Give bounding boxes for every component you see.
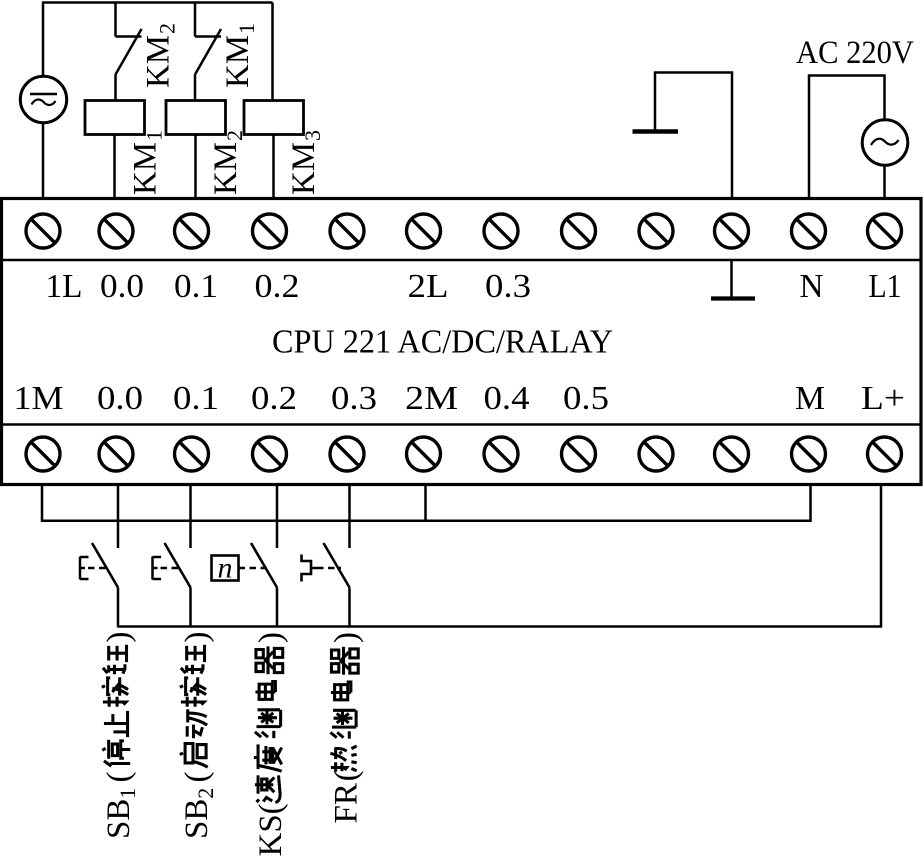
wire (655, 73, 732, 200)
svg-text:0.3: 0.3 (331, 380, 377, 417)
wire (272, 135, 275, 200)
svg-text:0.0: 0.0 (97, 380, 143, 417)
pushbutton SB1 (80, 485, 118, 628)
svg-text:L1: L1 (869, 268, 902, 305)
terminal 0.3 (top row) (484, 214, 518, 248)
thermal relay contact FR (302, 485, 350, 628)
label KM2 (141, 23, 180, 88)
svg-text:1L: 1L (46, 268, 83, 305)
label SB2 start button (179, 632, 218, 840)
pushbutton SB2 (153, 485, 191, 628)
label KM2 (208, 130, 247, 195)
svg-text:FR: FR (329, 783, 365, 823)
svg-text:(: ( (253, 803, 289, 814)
svg-text:): ) (101, 632, 137, 643)
terminal 0.0 (bottom row) (99, 437, 133, 471)
terminal 0.3 (bottom row) (330, 437, 364, 471)
svg-text:KM: KM (141, 35, 177, 88)
svg-text:0.5: 0.5 (563, 380, 609, 417)
terminal 1L (top row) (26, 214, 60, 248)
svg-text:0.4: 0.4 (484, 380, 530, 417)
svg-text:KM: KM (208, 142, 244, 195)
svg-text:L+: L+ (861, 380, 905, 417)
terminal 0.0 (top row) (99, 214, 133, 248)
terminal 0.4 (bottom row) (484, 437, 518, 471)
contact KM1 (NC interlock) (195, 3, 221, 102)
wire (2, 259, 922, 261)
svg-text:): ) (253, 632, 289, 643)
wire (42, 123, 45, 200)
svg-text:(: ( (329, 770, 365, 781)
svg-text:1: 1 (115, 788, 140, 799)
svg-text:1M: 1M (14, 380, 64, 417)
coil KM2 (166, 101, 226, 135)
coil KM3 (244, 101, 304, 135)
terminal terminal (top row) (639, 214, 673, 248)
wire (42, 3, 45, 78)
svg-text:M: M (795, 380, 825, 417)
label SB1 stop button (101, 632, 140, 840)
label KM1 (128, 130, 167, 195)
svg-text:2L: 2L (408, 268, 449, 305)
svg-text:KM: KM (220, 35, 256, 88)
svg-text:(: ( (179, 772, 215, 783)
terminal 2M (bottom row) (407, 437, 441, 471)
svg-text:0.0: 0.0 (100, 268, 144, 305)
terminal 0.2 (bottom row) (253, 437, 287, 471)
svg-text:0.3: 0.3 (485, 268, 531, 305)
svg-text:2: 2 (155, 23, 180, 34)
terminal 0.2 (top row) (253, 214, 287, 248)
contact KM2 (NC interlock) (116, 3, 142, 102)
label KM3 (286, 130, 325, 195)
terminal 0.1 (bottom row) (175, 437, 209, 471)
svg-text:0.2: 0.2 (255, 268, 300, 305)
terminal M (bottom row) (792, 437, 826, 471)
wire (2, 423, 922, 425)
svg-text:0.1: 0.1 (173, 380, 219, 417)
terminal N (top row) (792, 214, 826, 248)
wire 1M bus (42, 485, 811, 521)
svg-text:): ) (329, 632, 365, 643)
AC source GS1 (20, 76, 66, 122)
label FR thermal relay (329, 632, 365, 824)
svg-text:2: 2 (193, 788, 218, 799)
wire 2M stub (424, 485, 427, 521)
svg-text:SB: SB (101, 799, 137, 839)
terminal PE (top row) (715, 214, 749, 248)
terminal terminal (top row) (330, 214, 364, 248)
svg-text:): ) (179, 632, 215, 643)
svg-text:1: 1 (142, 130, 167, 141)
terminal 0.5 (bottom row) (562, 437, 596, 471)
svg-text:n: n (218, 552, 233, 585)
wire (113, 135, 116, 200)
svg-text:0.2: 0.2 (251, 380, 297, 417)
wire (809, 76, 885, 200)
wire (883, 165, 886, 199)
terminal 2L (top row) (407, 214, 441, 248)
label KM1 (220, 23, 259, 88)
terminal 1M (bottom row) (26, 437, 60, 471)
wire (194, 135, 197, 200)
terminal terminal (top row) (562, 214, 596, 248)
PLC module CPU 221 (2, 199, 922, 485)
svg-text:KM: KM (286, 142, 322, 195)
wire (42, 1, 273, 4)
terminal terminal (bottom row) (715, 437, 749, 471)
svg-text:3: 3 (300, 130, 325, 141)
terminal L+ (bottom row) (868, 437, 902, 471)
ground terminal symbol (711, 261, 755, 299)
wire L+ bus (118, 485, 881, 627)
speed relay contact KS (212, 485, 278, 628)
svg-text:SB: SB (179, 799, 215, 839)
svg-text:KS: KS (253, 814, 289, 856)
terminal L1 (top row) (868, 214, 902, 248)
coil KM1 (85, 101, 145, 135)
svg-text:(: ( (101, 772, 137, 783)
svg-text:1: 1 (234, 23, 259, 34)
terminal 0.1 (top row) (175, 214, 209, 248)
svg-text:N: N (800, 268, 824, 305)
wire (271, 3, 274, 102)
svg-text:2M: 2M (405, 380, 458, 417)
ground (PE) (633, 129, 679, 134)
AC source GS2 (862, 120, 908, 166)
svg-text:0.1: 0.1 (174, 268, 218, 305)
terminal terminal (bottom row) (639, 437, 673, 471)
svg-text:AC 220V: AC 220V (796, 35, 914, 71)
label KS speed relay (253, 632, 289, 857)
svg-text:CPU 221 AC/DC/RALAY: CPU 221 AC/DC/RALAY (272, 324, 613, 361)
svg-text:KM: KM (128, 142, 164, 195)
